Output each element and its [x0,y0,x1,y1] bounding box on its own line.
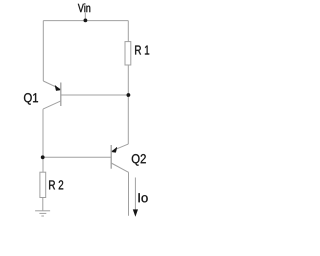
ground bar 1 [35,210,50,212]
Q2 collector lead [111,163,128,172]
resistor R1 [125,42,149,65]
R1 designator label [135,46,149,55]
wire R1 bottom to Q2 emitter [127,65,129,144]
wire Q1 collector down [42,109,44,157]
wire Q2 collector down to output [128,172,130,216]
transistor Q2 [111,144,146,172]
ground bar 3 [41,215,44,217]
node Vin [78,3,90,20]
ground bar 2 [39,212,46,214]
resistor R2 [40,172,63,197]
Q2 emitter lead [111,144,128,151]
wire Q1 base to node [61,94,129,96]
node Q1 collector / R2 / Q2 base [41,155,45,159]
label Io [139,193,148,202]
Q1 designator label [24,93,38,105]
R2 body [40,172,46,197]
Q1 emitter arrow (PNP) [55,85,61,90]
wire top rail [43,20,128,22]
R1 body [125,42,131,65]
Q1 emitter lead [43,81,60,89]
transistor Q1 [24,81,61,109]
label Vin [78,3,90,12]
Io arrowhead [133,209,138,216]
R2 designator label [49,180,63,189]
Q2 designator label [132,154,146,166]
wire R2 to ground [42,198,44,211]
current arrow Io [133,178,148,217]
ground [35,211,50,216]
node under R1 [126,93,130,97]
Q1 collector lead [43,101,61,109]
Q2 emitter arrow (PNP) [112,147,117,152]
wire Vin stub [84,13,86,21]
wire left column (Vin to Q1 emitter) [42,21,44,81]
wire node to R2 [42,157,44,172]
Io arrow shaft [134,178,136,211]
Q1 base bar [60,83,62,107]
junction dot at Vin [84,19,88,23]
wire node to Q2 base [43,156,111,158]
Q2 base bar [110,145,112,169]
wire right column (rail to R1) [127,21,129,42]
